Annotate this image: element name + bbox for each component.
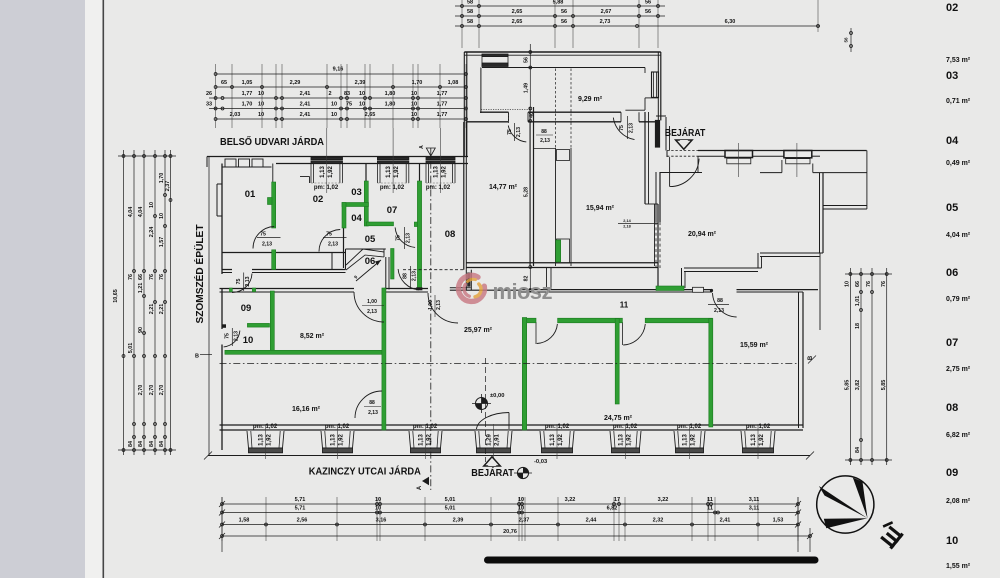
svg-text:1,13: 1,13: [419, 434, 425, 446]
svg-text:1,13: 1,13: [619, 434, 625, 446]
svg-text:1,21: 1,21: [138, 283, 144, 294]
svg-text:10: 10: [331, 112, 337, 118]
svg-text:pm: 1,02: pm: 1,02: [426, 185, 451, 191]
rooms 09 10 walls: [0, 0, 1, 1]
svg-text:pm: 1,02: pm: 1,02: [413, 424, 438, 430]
svg-text:2,65: 2,65: [365, 112, 376, 118]
svg-text:pm: 1,02: pm: 1,02: [314, 185, 339, 191]
green wall left of room 11: [522, 318, 526, 431]
svg-text:2,67: 2,67: [601, 9, 612, 15]
room labels: [241, 187, 629, 346]
svg-text:06: 06: [946, 267, 958, 279]
svg-text:1,92: 1,92: [691, 434, 697, 446]
level mark plus minus 0,00: [472, 393, 504, 413]
svg-text:58: 58: [467, 0, 473, 6]
svg-text:2,13: 2,13: [629, 123, 635, 133]
dimension chain block left side: [113, 150, 176, 455]
svg-text:11: 11: [707, 506, 713, 512]
green jambs top of room 09: [229, 288, 255, 292]
dimension chain block right side: [845, 268, 892, 465]
svg-text:10,65: 10,65: [113, 289, 119, 303]
door room 11 top 88: [708, 293, 737, 317]
vent box in wall room 11: [693, 287, 714, 292]
svg-text:1,00: 1,00: [367, 299, 377, 305]
svg-text:06: 06: [365, 256, 376, 267]
svg-text:76: 76: [866, 281, 872, 287]
svg-text:1,92: 1,92: [339, 434, 345, 446]
svg-text:1,92: 1,92: [328, 166, 334, 178]
corridor walls room 08: [222, 249, 386, 273]
svg-text:2,37: 2,37: [165, 181, 171, 192]
svg-text:2: 2: [328, 91, 331, 97]
green wall room 10 top: [247, 323, 269, 327]
svg-text:03: 03: [946, 70, 958, 82]
svg-text:5,01: 5,01: [445, 506, 456, 512]
svg-text:0,71 m²: 0,71 m²: [946, 98, 971, 105]
green wall segment near entry 20,94: [656, 286, 684, 291]
svg-text:2,41: 2,41: [720, 518, 731, 524]
svg-text:5,01: 5,01: [445, 497, 456, 503]
svg-text:9,29 m²: 9,29 m²: [578, 96, 603, 103]
svg-text:pm: 1,02: pm: 1,02: [746, 424, 771, 430]
svg-text:pm: 1,02: pm: 1,02: [253, 424, 278, 430]
right building top windows: [725, 143, 812, 177]
svg-text:1,80: 1,80: [385, 102, 396, 108]
svg-text:1,92: 1,92: [394, 166, 400, 178]
dimension chain middle vertical: [523, 44, 535, 291]
svg-text:02: 02: [946, 2, 958, 14]
svg-text:1,77: 1,77: [437, 102, 448, 108]
svg-text:miosz: miosz: [493, 279, 553, 304]
svg-text:2,18: 2,18: [623, 225, 630, 229]
svg-text:5,85: 5,85: [881, 380, 887, 391]
svg-text:2,56: 2,56: [297, 518, 308, 524]
svg-text:2,32: 2,32: [653, 518, 664, 524]
svg-text:6,82: 6,82: [607, 506, 618, 512]
svg-text:2,24: 2,24: [149, 227, 155, 238]
svg-text:11: 11: [620, 301, 629, 310]
svg-text:24,75 m²: 24,75 m²: [604, 415, 633, 422]
svg-text:2,13: 2,13: [368, 410, 378, 416]
svg-text:2,14: 2,14: [623, 219, 631, 223]
svg-text:2,13: 2,13: [412, 271, 418, 281]
compass north symbol: [817, 476, 904, 547]
svg-text:2,13: 2,13: [262, 242, 272, 248]
svg-text:56: 56: [561, 19, 567, 25]
svg-text:2,13: 2,13: [245, 276, 251, 286]
label BEJARAT top: [665, 126, 706, 149]
green wall 16,16 / 25,97 divider: [382, 288, 386, 430]
svg-text:84: 84: [855, 447, 861, 453]
door left wall room 10: [224, 328, 240, 347]
svg-text:1,70: 1,70: [242, 102, 253, 108]
svg-text:10: 10: [518, 497, 524, 503]
svg-text:1,01: 1,01: [855, 296, 861, 307]
door 9,29 label 88: [536, 129, 553, 144]
svg-text:2,13: 2,13: [714, 308, 724, 314]
svg-text:02: 02: [313, 194, 324, 205]
door bottom wall room 09: [232, 273, 252, 293]
svg-text:75: 75: [396, 235, 402, 241]
svg-text:9,16: 9,16: [333, 67, 344, 73]
svg-text:pm: 1,02: pm: 1,02: [380, 185, 405, 191]
svg-text:76: 76: [128, 274, 134, 280]
svg-text:10: 10: [375, 506, 381, 512]
svg-text:1,92: 1,92: [442, 166, 448, 178]
light strip between sidebar and drawing: [85, 0, 103, 578]
svg-text:±0,00: ±0,00: [490, 393, 504, 399]
scale bar: [484, 557, 819, 564]
svg-text:2,13: 2,13: [516, 127, 522, 137]
section line B-B dashed: [195, 354, 816, 364]
svg-text:2,39: 2,39: [453, 518, 464, 524]
svg-text:2,13: 2,13: [540, 138, 550, 144]
svg-text:25,97 m²: 25,97 m²: [464, 327, 493, 334]
label BEJARAT bottom: [471, 457, 514, 479]
svg-text:75: 75: [507, 129, 513, 135]
dimension chain block bottom: [219, 497, 813, 552]
svg-text:16,16 m²: 16,16 m²: [292, 406, 321, 413]
svg-text:4,04: 4,04: [128, 207, 134, 218]
svg-text:88: 88: [717, 298, 723, 304]
svg-text:66: 66: [138, 274, 144, 280]
svg-text:66: 66: [855, 281, 861, 287]
section line A-A dashed: [417, 145, 435, 490]
svg-text:pm: 1,02: pm: 1,02: [545, 424, 570, 430]
svg-text:5,28: 5,28: [523, 187, 529, 197]
green wall room 06 right: [391, 249, 394, 280]
svg-text:56: 56: [645, 9, 651, 15]
svg-text:75: 75: [260, 232, 266, 238]
svg-text:76: 76: [881, 281, 887, 287]
svg-text:2,39: 2,39: [355, 80, 366, 86]
door corridor 88: [398, 266, 419, 290]
green wall room 01 right: [268, 182, 276, 270]
green wall below rooms 09/10: [225, 350, 385, 354]
svg-text:1,55 m²: 1,55 m²: [946, 563, 971, 570]
svg-text:2,08 m²: 2,08 m²: [946, 498, 971, 505]
svg-text:2,21: 2,21: [149, 304, 155, 315]
svg-text:10: 10: [149, 202, 155, 208]
svg-text:2,65: 2,65: [512, 9, 523, 15]
svg-text:84: 84: [138, 441, 144, 447]
upper middle block 9,29 outer walls: [464, 52, 661, 157]
svg-text:05: 05: [365, 234, 376, 245]
svg-text:75: 75: [236, 279, 242, 285]
svg-text:3,22: 3,22: [658, 497, 669, 503]
svg-text:1,13: 1,13: [434, 166, 440, 178]
svg-text:75: 75: [326, 232, 332, 238]
dimension chain block top-left: [206, 64, 468, 128]
svg-text:09: 09: [946, 467, 958, 479]
svg-text:1,49: 1,49: [523, 83, 529, 93]
svg-text:10: 10: [946, 535, 958, 547]
svg-text:8,52 m²: 8,52 m²: [300, 333, 325, 340]
door room 02: [319, 230, 347, 252]
svg-text:4,04: 4,04: [138, 207, 144, 218]
svg-text:10: 10: [411, 102, 417, 108]
green wall rooms 09/10 right: [270, 291, 274, 352]
svg-text:6,82 m²: 6,82 m²: [946, 432, 971, 439]
svg-text:1,08: 1,08: [448, 80, 459, 86]
svg-text:07: 07: [946, 337, 958, 349]
svg-text:1,77: 1,77: [437, 91, 448, 97]
svg-text:10: 10: [243, 335, 254, 346]
svg-text:2,37: 2,37: [519, 518, 530, 524]
svg-text:10: 10: [518, 506, 524, 512]
svg-text:18: 18: [855, 323, 861, 329]
window hatch 9,29 top wall: [482, 54, 508, 67]
svg-text:BEJÁRAT: BEJÁRAT: [665, 126, 706, 139]
svg-text:2,73: 2,73: [600, 19, 611, 25]
svg-text:5,71: 5,71: [295, 497, 306, 503]
pm labels top windows: [314, 185, 451, 191]
svg-text:2,03: 2,03: [230, 112, 241, 118]
svg-text:10: 10: [411, 91, 417, 97]
walls rooms 03 04 05 07: [344, 122, 467, 290]
svg-text:56: 56: [523, 57, 529, 63]
svg-text:B: B: [808, 355, 814, 360]
corridor wall stub below 15,94: [547, 268, 552, 291]
svg-text:07: 07: [387, 205, 398, 216]
svg-text:1,77: 1,77: [242, 91, 253, 97]
svg-text:5,88: 5,88: [553, 0, 564, 6]
svg-text:84: 84: [159, 441, 165, 447]
svg-text:90: 90: [138, 327, 144, 333]
svg-text:2,13: 2,13: [234, 331, 240, 341]
svg-text:7,53 m²: 7,53 m²: [946, 57, 971, 64]
svg-text:10: 10: [845, 281, 851, 287]
svg-text:65: 65: [221, 80, 227, 86]
svg-text:11: 11: [707, 497, 713, 503]
svg-text:3,16: 3,16: [376, 518, 387, 524]
svg-text:88: 88: [541, 129, 547, 135]
door 9,29 right: [613, 116, 634, 140]
svg-text:1,13: 1,13: [751, 434, 757, 446]
svg-text:pm: 1,02: pm: 1,02: [613, 424, 638, 430]
svg-text:76: 76: [149, 274, 155, 280]
pm labels bottom windows: [253, 424, 771, 430]
svg-text:10: 10: [375, 497, 381, 503]
svg-text:A: A: [419, 145, 425, 149]
svg-text:2,41: 2,41: [300, 102, 311, 108]
svg-text:20,94 m²: 20,94 m²: [688, 231, 717, 238]
svg-text:1,92: 1,92: [558, 434, 564, 446]
svg-text:10: 10: [331, 102, 337, 108]
svg-text:1,92: 1,92: [427, 434, 433, 446]
svg-text:-0,03: -0,03: [534, 459, 548, 465]
left gray sidebar panel: [0, 0, 85, 578]
svg-text:1,70: 1,70: [412, 80, 423, 86]
svg-text:10: 10: [359, 102, 365, 108]
svg-text:pm: 1,02: pm: 1,02: [325, 424, 350, 430]
door 8,52 bottom 1,00: [354, 292, 384, 322]
svg-text:3,22: 3,22: [565, 497, 576, 503]
svg-text:1,05: 1,05: [242, 80, 253, 86]
svg-text:20,76: 20,76: [503, 529, 517, 535]
svg-text:5,85: 5,85: [845, 380, 851, 391]
svg-text:04: 04: [351, 213, 362, 224]
door 9,29 left: [507, 123, 526, 142]
svg-text:10: 10: [159, 213, 165, 219]
svg-text:2,13: 2,13: [436, 300, 442, 310]
svg-text:88: 88: [403, 273, 409, 279]
svg-text:2,41: 2,41: [300, 91, 311, 97]
bottom wall window boxes: [247, 424, 775, 459]
svg-text:84: 84: [128, 441, 134, 447]
svg-text:KAZINCZY UTCAI JÁRDA: KAZINCZY UTCAI JÁRDA: [309, 465, 421, 478]
svg-text:1,57: 1,57: [159, 237, 165, 248]
svg-text:1,92: 1,92: [627, 434, 633, 446]
svg-text:3,11: 3,11: [749, 506, 759, 512]
green wall room 03 left: [364, 181, 368, 226]
svg-text:1,13: 1,13: [683, 434, 689, 446]
svg-text:15,59 m²: 15,59 m²: [740, 342, 769, 349]
top wall window boxes 02 03 07: [311, 128, 455, 193]
door 16,16 bottom 88: [355, 391, 382, 418]
svg-text:10: 10: [258, 112, 264, 118]
svg-text:09: 09: [241, 303, 252, 314]
svg-text:1,13: 1,13: [320, 166, 326, 178]
svg-text:58: 58: [467, 19, 473, 25]
door room 01: [253, 227, 281, 249]
svg-text:0,79 m²: 0,79 m²: [946, 296, 971, 303]
green wall room 07 bottom: [366, 222, 393, 226]
svg-text:1,77: 1,77: [437, 112, 448, 118]
svg-text:B: B: [195, 354, 199, 360]
vertical panel divider line: [103, 0, 105, 578]
svg-text:04: 04: [946, 135, 959, 147]
svg-text:26: 26: [206, 91, 212, 97]
svg-text:10: 10: [359, 91, 365, 97]
svg-text:1,13: 1,13: [331, 434, 337, 446]
right building 20,94 walls: [656, 151, 867, 289]
middle rooms 14,77 / 15,94 walls: [466, 69, 658, 291]
svg-text:10: 10: [258, 91, 264, 97]
svg-text:2,13: 2,13: [328, 242, 338, 248]
svg-text:1,92: 1,92: [267, 434, 273, 446]
svg-text:58: 58: [467, 9, 473, 15]
svg-text:1,58: 1,58: [239, 518, 250, 524]
svg-text:5,01: 5,01: [128, 343, 134, 354]
svg-text:2,91: 2,91: [495, 434, 501, 446]
svg-text:2,13: 2,13: [367, 309, 377, 315]
left building block outer walls: [207, 157, 468, 451]
svg-text:6,30: 6,30: [725, 19, 736, 25]
svg-text:BEJÁRAT: BEJÁRAT: [471, 466, 514, 479]
svg-text:1,92: 1,92: [759, 434, 765, 446]
green walls room 11 top: [523, 318, 713, 323]
green wall 11/15,59 divider b: [709, 319, 713, 428]
svg-text:0,49 m²: 0,49 m²: [946, 160, 971, 167]
svg-text:76: 76: [159, 274, 165, 280]
svg-text:15,94 m²: 15,94 m²: [586, 205, 615, 212]
svg-text:33: 33: [206, 102, 212, 108]
svg-text:A: A: [417, 485, 423, 490]
svg-text:2,13: 2,13: [406, 233, 412, 243]
svg-text:2,41: 2,41: [300, 112, 311, 118]
svg-text:2,21: 2,21: [159, 304, 165, 315]
svg-text:56: 56: [645, 0, 651, 6]
main bottom entrance door: [477, 413, 510, 430]
svg-text:BELSŐ UDVARI JÁRDA: BELSŐ UDVARI JÁRDA: [220, 135, 325, 148]
svg-text:75: 75: [346, 102, 352, 108]
svg-text:56: 56: [844, 37, 849, 43]
room 01 flue boxes: [225, 159, 263, 167]
svg-text:08: 08: [445, 229, 456, 240]
svg-text:03: 03: [351, 187, 362, 198]
svg-text:2,70: 2,70: [149, 385, 155, 396]
svg-text:84: 84: [149, 441, 155, 447]
entrance axis dashed: [485, 358, 487, 462]
stairs room 06: [346, 249, 384, 281]
svg-text:SZOMSZÉD ÉPÜLET: SZOMSZÉD ÉPÜLET: [193, 224, 206, 324]
right column room list: [946, 2, 971, 570]
svg-text:pm: 1,02: pm: 1,02: [677, 424, 702, 430]
svg-text:88: 88: [369, 400, 375, 406]
green wall 11/15,59 divider a: [615, 319, 619, 405]
green shaft wall 15,94: [556, 240, 561, 262]
door room 05 right: [395, 227, 415, 249]
svg-text:2,70: 2,70: [138, 385, 144, 396]
svg-text:1,13: 1,13: [550, 434, 556, 446]
svg-text:4,04 m²: 4,04 m²: [946, 232, 971, 239]
bottom band outer walls: [204, 156, 818, 460]
svg-text:17: 17: [614, 497, 620, 503]
svg-text:1,53: 1,53: [773, 518, 784, 524]
svg-text:2,44: 2,44: [586, 518, 598, 524]
door jamb block room 10: [223, 324, 227, 328]
green wall jog rooms 03/04: [342, 203, 369, 229]
svg-text:75: 75: [619, 125, 625, 131]
entrance door 20,94: [666, 117, 699, 187]
room area labels: [292, 96, 769, 422]
svg-text:75: 75: [225, 333, 231, 339]
svg-text:1,13: 1,13: [386, 166, 392, 178]
window in 9,29 right wall: [652, 72, 659, 97]
level mark -0,03: [514, 459, 548, 479]
entry vestibule right of 9,29: [656, 115, 666, 117]
svg-text:2,29: 2,29: [290, 80, 301, 86]
svg-text:14,77 m²: 14,77 m²: [489, 184, 518, 191]
vestibule wall poche: [655, 120, 660, 148]
svg-text:10: 10: [258, 102, 264, 108]
wall shaft left of corridor junction: [403, 270, 471, 290]
neighbour structure top right: [820, 151, 867, 331]
door arcs in green wall room 11: [536, 322, 645, 345]
svg-text:10: 10: [411, 112, 417, 118]
svg-text:2,75 m²: 2,75 m²: [946, 366, 971, 373]
svg-text:2,70: 2,70: [159, 385, 165, 396]
door 25,97 top 1,00: [428, 293, 458, 323]
svg-text:3,11: 3,11: [749, 497, 759, 503]
green wall rooms 07/08 divider long: [414, 181, 422, 290]
svg-text:5,71: 5,71: [295, 506, 306, 512]
svg-text:2,65: 2,65: [512, 19, 523, 25]
svg-text:83: 83: [344, 91, 350, 97]
dimension chain block top-middle: [455, 0, 852, 52]
svg-text:05: 05: [946, 202, 958, 214]
svg-text:1,29: 1,29: [487, 434, 493, 446]
watermark logo miosz: [458, 275, 552, 304]
svg-text:01: 01: [245, 189, 256, 200]
svg-text:1,13: 1,13: [259, 434, 265, 446]
svg-text:56: 56: [561, 9, 567, 15]
svg-text:1,80: 1,80: [385, 91, 396, 97]
svg-text:3,82: 3,82: [855, 380, 861, 391]
svg-text:08: 08: [946, 402, 958, 414]
